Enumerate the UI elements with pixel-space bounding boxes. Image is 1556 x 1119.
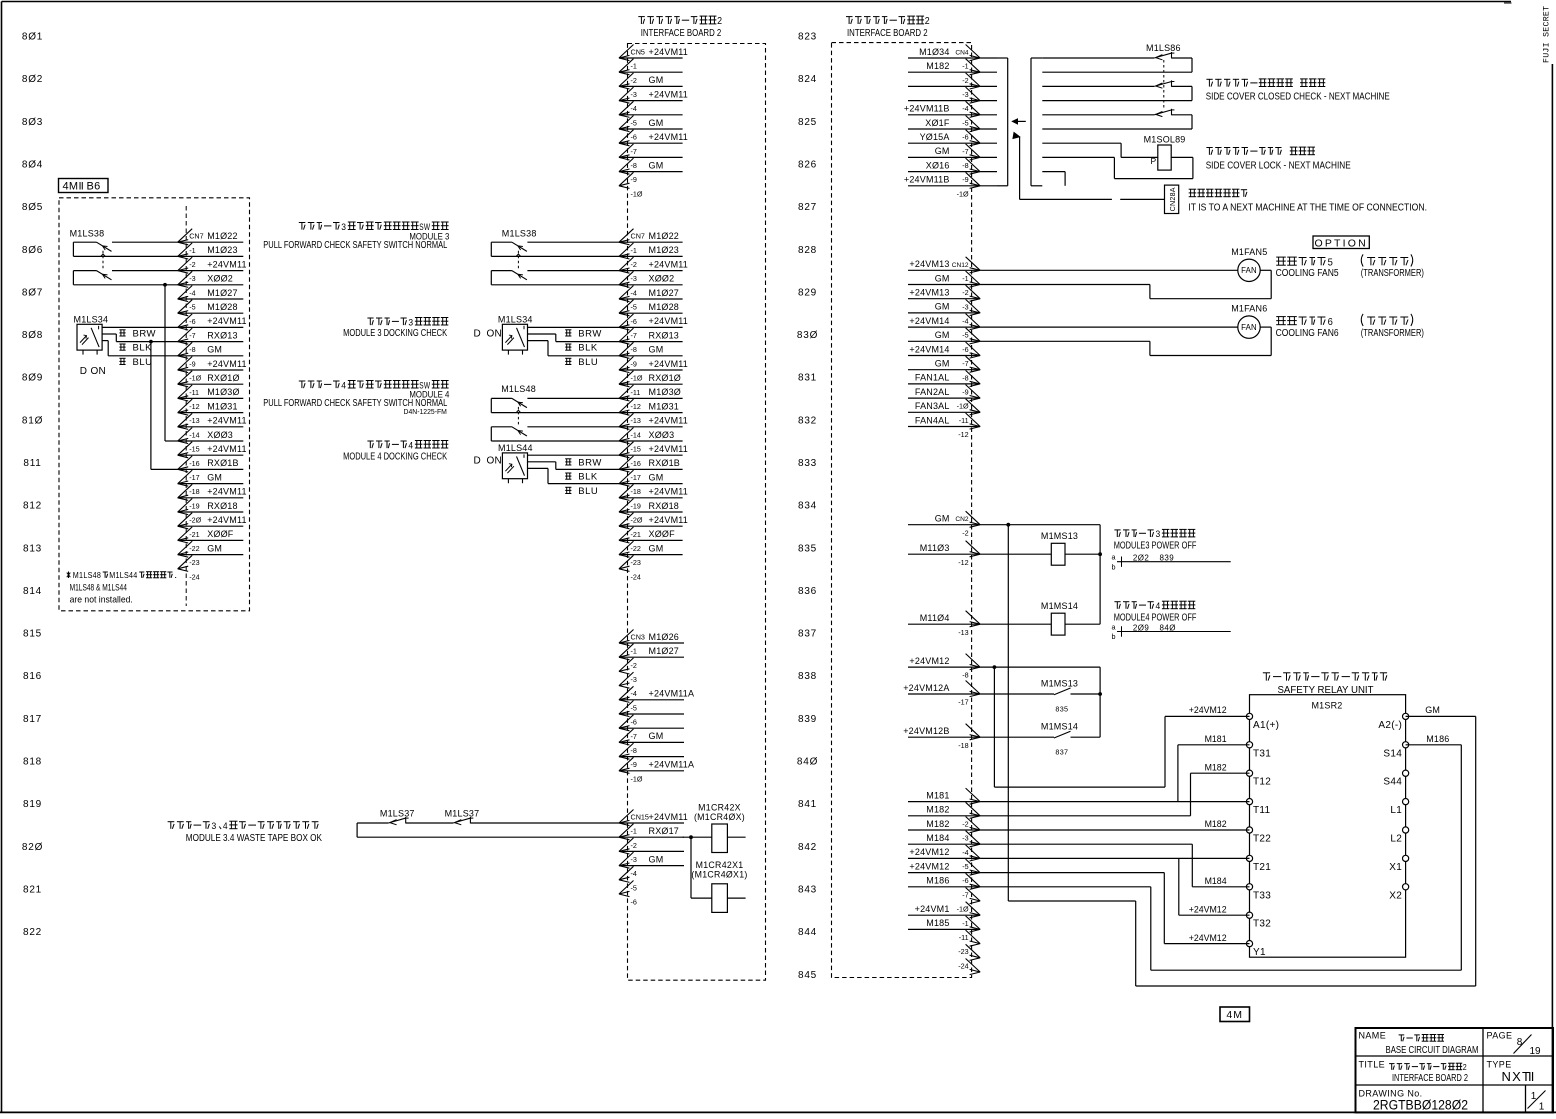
- svg-text:8Ø6: 8Ø6: [22, 245, 43, 256]
- svg-text:-4: -4: [631, 104, 637, 113]
- svg-text:-12: -12: [189, 402, 199, 411]
- svg-text:844: 844: [798, 927, 817, 938]
- svg-text:841: 841: [798, 799, 817, 810]
- svg-text:+24VM12: +24VM12: [1189, 904, 1227, 914]
- svg-text:T32: T32: [1253, 919, 1271, 930]
- svg-text:+24VM11: +24VM11: [649, 444, 689, 454]
- svg-text:XØØF: XØØF: [207, 529, 234, 539]
- svg-text:8Ø5: 8Ø5: [22, 202, 43, 213]
- svg-text:-2: -2: [962, 76, 968, 85]
- svg-text:XØ16: XØ16: [926, 160, 950, 170]
- svg-text:-8: -8: [962, 373, 968, 382]
- svg-text:IT IS TO A NEXT MACHINE AT THE: IT IS TO A NEXT MACHINE AT THE TIME OF C…: [1188, 203, 1427, 214]
- svg-text:-24: -24: [631, 572, 641, 581]
- svg-text:BRW: BRW: [578, 328, 602, 339]
- svg-text:GM: GM: [935, 146, 950, 156]
- svg-text:826: 826: [798, 159, 817, 170]
- svg-text:-14: -14: [189, 430, 199, 439]
- svg-text:-5: -5: [631, 703, 637, 712]
- svg-text:-4: -4: [631, 869, 637, 878]
- svg-text:M181: M181: [926, 790, 949, 800]
- svg-text:GM: GM: [649, 854, 664, 864]
- svg-text:M1Ø28: M1Ø28: [207, 302, 238, 312]
- svg-text:+24VM12: +24VM12: [1189, 705, 1227, 715]
- svg-text:-1: -1: [631, 62, 637, 71]
- svg-text:ON: ON: [487, 328, 502, 339]
- svg-text:2RGTBBØ128Ø2: 2RGTBBØ128Ø2: [1373, 1098, 1468, 1113]
- svg-text:-24: -24: [958, 961, 968, 970]
- svg-text:INTERFACE BOARD 2: INTERFACE BOARD 2: [847, 28, 928, 39]
- svg-text:MODULE3 POWER OFF: MODULE3 POWER OFF: [1114, 541, 1197, 552]
- svg-text:-1Ø: -1Ø: [957, 905, 969, 914]
- svg-text:+24VM11: +24VM11: [207, 359, 247, 369]
- svg-text:832: 832: [798, 415, 817, 426]
- svg-text:-8: -8: [631, 746, 637, 755]
- svg-text:COOLING FAN5: COOLING FAN5: [1276, 268, 1339, 279]
- svg-text:A2(-): A2(-): [1378, 720, 1402, 731]
- svg-text:D: D: [474, 328, 481, 339]
- svg-text:-14: -14: [631, 430, 641, 439]
- svg-text:M186: M186: [926, 876, 949, 886]
- svg-text:L1: L1: [1390, 805, 1402, 816]
- svg-text:MODULE 4 DOCKING CHECK: MODULE 4 DOCKING CHECK: [343, 452, 447, 463]
- svg-text:-11: -11: [189, 388, 199, 397]
- svg-text:-12: -12: [958, 558, 968, 567]
- svg-text:3: 3: [212, 821, 217, 832]
- svg-text:RXØ1B: RXØ1B: [207, 458, 239, 468]
- svg-text:S14: S14: [1383, 748, 1402, 759]
- svg-text:BRW: BRW: [578, 457, 602, 468]
- svg-text:+24VM14: +24VM14: [909, 344, 949, 354]
- svg-text:M1CR42X: M1CR42X: [698, 803, 741, 813]
- svg-text:+24VM11: +24VM11: [649, 89, 689, 99]
- svg-text:-6: -6: [631, 718, 637, 727]
- svg-text:-8: -8: [631, 345, 637, 354]
- svg-text:825: 825: [798, 117, 817, 128]
- svg-text:-5: -5: [962, 331, 968, 340]
- svg-text:+24VM11A: +24VM11A: [649, 689, 695, 699]
- svg-text:827: 827: [798, 202, 817, 213]
- svg-text:L2: L2: [1390, 834, 1402, 845]
- svg-text:-6: -6: [962, 876, 968, 885]
- svg-text:845: 845: [798, 970, 817, 981]
- svg-text:INTERFACE BOARD 2: INTERFACE BOARD 2: [641, 28, 722, 39]
- svg-text:817: 817: [23, 714, 42, 725]
- svg-text:-1: -1: [631, 647, 637, 656]
- svg-text:XØØ2: XØØ2: [649, 274, 675, 284]
- svg-text:.: .: [174, 571, 178, 580]
- svg-text:-8: -8: [189, 345, 195, 354]
- svg-text:-1: -1: [962, 919, 968, 928]
- svg-text:837: 837: [1055, 748, 1068, 757]
- svg-text:-1: -1: [631, 246, 637, 255]
- svg-text:XØ1F: XØ1F: [925, 118, 950, 128]
- svg-text:+24VM13: +24VM13: [909, 259, 949, 269]
- svg-text:837: 837: [798, 629, 817, 640]
- svg-text:D: D: [474, 455, 481, 466]
- svg-text:+24VM13: +24VM13: [909, 288, 949, 298]
- svg-text:RXØ1Ø: RXØ1Ø: [207, 373, 240, 383]
- svg-text:-5: -5: [631, 303, 637, 312]
- svg-text:FAN4AL: FAN4AL: [915, 415, 950, 425]
- svg-text:4: 4: [408, 440, 413, 451]
- svg-text:-13: -13: [958, 628, 968, 637]
- svg-text:BLU: BLU: [578, 486, 598, 497]
- svg-text:+24VM12B: +24VM12B: [903, 726, 949, 736]
- svg-text:+24VM11: +24VM11: [649, 812, 689, 822]
- svg-text:+24VM11: +24VM11: [649, 487, 689, 497]
- svg-text:834: 834: [798, 501, 817, 512]
- svg-text:-11: -11: [959, 933, 969, 942]
- svg-text:CN15: CN15: [631, 813, 649, 822]
- svg-text:-7: -7: [189, 331, 195, 340]
- svg-text:8Ø4: 8Ø4: [22, 159, 43, 170]
- svg-text:839: 839: [798, 714, 817, 725]
- svg-text:GM: GM: [935, 302, 950, 312]
- svg-text:FAN1AL: FAN1AL: [915, 373, 950, 383]
- svg-text:-2: -2: [962, 528, 968, 537]
- svg-text:-22: -22: [631, 544, 641, 553]
- svg-text:+24VM11A: +24VM11A: [649, 760, 695, 770]
- svg-text:-1: -1: [962, 62, 968, 71]
- svg-text:-18: -18: [189, 487, 199, 496]
- svg-text:(TRANSFORMER): (TRANSFORMER): [1361, 268, 1424, 279]
- svg-text:-7: -7: [962, 147, 968, 156]
- svg-text:819: 819: [23, 799, 42, 810]
- svg-text:T21: T21: [1253, 862, 1271, 873]
- svg-text:BLU: BLU: [133, 357, 153, 368]
- svg-text:-17: -17: [958, 698, 968, 707]
- svg-text:812: 812: [23, 501, 42, 512]
- svg-text:M1LS37: M1LS37: [445, 809, 480, 819]
- svg-text:-9: -9: [189, 359, 195, 368]
- svg-text:M1LS86: M1LS86: [1146, 43, 1181, 53]
- svg-text:a: a: [1111, 623, 1115, 632]
- svg-text:-9: -9: [962, 175, 968, 184]
- svg-text:835: 835: [1055, 705, 1068, 714]
- svg-text:-2: -2: [631, 76, 637, 85]
- svg-text:M1Ø27: M1Ø27: [207, 288, 238, 298]
- svg-text:+24VM11: +24VM11: [649, 259, 689, 269]
- svg-text:818: 818: [23, 757, 42, 768]
- svg-text:RXØ18: RXØ18: [649, 501, 680, 511]
- svg-text:3: 3: [341, 222, 346, 233]
- svg-text:8Ø1: 8Ø1: [22, 32, 43, 43]
- svg-text:M1LS34: M1LS34: [74, 315, 109, 325]
- svg-text:-2: -2: [189, 260, 195, 269]
- svg-text:A1(+): A1(+): [1253, 720, 1279, 731]
- svg-text:T33: T33: [1253, 890, 1271, 901]
- svg-text:M1LS38: M1LS38: [70, 229, 105, 239]
- svg-text:M1FAN6: M1FAN6: [1231, 304, 1267, 314]
- svg-text:-2: -2: [962, 819, 968, 828]
- svg-text:+24VM11B: +24VM11B: [904, 104, 950, 114]
- svg-text:835: 835: [798, 543, 817, 554]
- svg-text:T11: T11: [1253, 805, 1271, 816]
- svg-text:-23: -23: [958, 947, 968, 956]
- svg-text:2Ø2: 2Ø2: [1133, 554, 1149, 563]
- svg-text:M1LS44: M1LS44: [498, 443, 533, 453]
- svg-text:are not installed.: are not installed.: [70, 595, 133, 606]
- svg-text:2: 2: [717, 16, 722, 27]
- svg-text:-1Ø: -1Ø: [957, 402, 969, 411]
- svg-text:+24VM11: +24VM11: [649, 316, 689, 326]
- svg-text:FAN3AL: FAN3AL: [915, 401, 950, 411]
- svg-text:b: b: [1111, 632, 1115, 641]
- svg-text:ON: ON: [91, 366, 106, 377]
- svg-text:4M: 4M: [63, 181, 79, 193]
- svg-text:TITLE: TITLE: [1359, 1060, 1386, 1070]
- svg-text:FAN2AL: FAN2AL: [915, 387, 950, 397]
- svg-text:822: 822: [23, 927, 42, 938]
- svg-text:FAN: FAN: [1241, 323, 1257, 332]
- svg-text:829: 829: [798, 287, 817, 298]
- svg-text:-4: -4: [631, 288, 637, 297]
- svg-text:-19: -19: [189, 501, 199, 510]
- svg-text:823: 823: [798, 32, 817, 43]
- svg-text:X1: X1: [1389, 862, 1402, 873]
- svg-text:82Ø: 82Ø: [22, 842, 43, 853]
- svg-text:-1Ø: -1Ø: [189, 374, 201, 383]
- svg-text:M1SR2: M1SR2: [1311, 701, 1342, 711]
- svg-text:-9: -9: [631, 175, 637, 184]
- svg-text:(TRANSFORMER): (TRANSFORMER): [1361, 328, 1424, 339]
- svg-text:MODULE4 POWER OFF: MODULE4 POWER OFF: [1114, 612, 1197, 623]
- svg-text:GM: GM: [649, 160, 664, 170]
- svg-text:6: 6: [1328, 317, 1334, 328]
- svg-text:-3: -3: [962, 834, 968, 843]
- svg-text:-7: -7: [962, 890, 968, 899]
- svg-text:-5: -5: [631, 118, 637, 127]
- svg-text:83Ø: 83Ø: [797, 330, 818, 341]
- svg-text:4: 4: [223, 821, 228, 832]
- svg-text:2Ø9: 2Ø9: [1133, 623, 1149, 632]
- svg-text:-6: -6: [631, 133, 637, 142]
- svg-text:FUJI SECRET: FUJI SECRET: [1543, 6, 1552, 63]
- svg-text:XØØF: XØØF: [649, 529, 676, 539]
- svg-text:RXØ18: RXØ18: [207, 501, 238, 511]
- svg-text:-19: -19: [631, 501, 641, 510]
- svg-text:-3: -3: [631, 274, 637, 283]
- svg-text:P: P: [1151, 156, 1157, 166]
- svg-text:T12: T12: [1253, 777, 1271, 788]
- svg-text:-7: -7: [631, 732, 637, 741]
- svg-text:Y1: Y1: [1253, 947, 1266, 958]
- svg-text:+24VM12: +24VM12: [909, 847, 949, 857]
- svg-text:1: 1: [1539, 1102, 1545, 1113]
- svg-text:YØ15A: YØ15A: [920, 132, 950, 142]
- svg-text:M11Ø4: M11Ø4: [920, 613, 950, 623]
- svg-text:-16: -16: [631, 459, 641, 468]
- svg-text:M1Ø34: M1Ø34: [919, 47, 950, 57]
- svg-text:M1Ø27: M1Ø27: [649, 288, 680, 298]
- svg-text:842: 842: [798, 842, 817, 853]
- svg-text:+24VM11: +24VM11: [649, 132, 689, 142]
- svg-text:M184: M184: [1205, 876, 1227, 886]
- svg-text:M1Ø27: M1Ø27: [649, 646, 680, 656]
- svg-text:II: II: [1528, 1069, 1534, 1084]
- svg-text:-8: -8: [631, 161, 637, 170]
- svg-text:+24VM11B: +24VM11B: [904, 175, 950, 185]
- svg-text:D: D: [80, 366, 87, 377]
- svg-text:M182: M182: [1205, 762, 1227, 772]
- svg-text:-1: -1: [962, 274, 968, 283]
- svg-text:+24VM11: +24VM11: [649, 47, 689, 57]
- svg-text:+24VM11: +24VM11: [207, 416, 247, 426]
- svg-text:821: 821: [23, 885, 42, 896]
- svg-text:-23: -23: [189, 558, 199, 567]
- svg-text:-2: -2: [631, 260, 637, 269]
- svg-text:814: 814: [23, 586, 42, 597]
- svg-text:(M1CR4ØX): (M1CR4ØX): [694, 812, 745, 822]
- svg-text:M1Ø31: M1Ø31: [649, 401, 680, 411]
- svg-text:-11: -11: [631, 388, 641, 397]
- svg-text:GM: GM: [649, 543, 664, 553]
- svg-text:-6: -6: [962, 345, 968, 354]
- svg-text:-1: -1: [631, 827, 637, 836]
- svg-text:-5: -5: [962, 118, 968, 127]
- svg-text:SIDE COVER LOCK - NEXT MACHINE: SIDE COVER LOCK - NEXT MACHINE: [1206, 160, 1351, 171]
- svg-text:-13: -13: [631, 416, 641, 425]
- svg-text:84Ø: 84Ø: [1160, 623, 1176, 632]
- svg-text:M1Ø22: M1Ø22: [649, 231, 680, 241]
- svg-text:M1Ø26: M1Ø26: [649, 632, 680, 642]
- svg-text:-21: -21: [189, 530, 199, 539]
- svg-text:-13: -13: [189, 416, 199, 425]
- svg-text:M1Ø3Ø: M1Ø3Ø: [207, 387, 240, 397]
- svg-text:BRW: BRW: [133, 328, 157, 339]
- svg-text:GM: GM: [649, 345, 664, 355]
- svg-text:815: 815: [23, 629, 42, 640]
- svg-text:838: 838: [798, 671, 817, 682]
- svg-text:8Ø9: 8Ø9: [22, 373, 43, 384]
- svg-text:81Ø: 81Ø: [22, 415, 43, 426]
- svg-text:-7: -7: [631, 147, 637, 156]
- svg-text:-6: -6: [189, 317, 195, 326]
- svg-text:-9: -9: [962, 388, 968, 397]
- svg-text:M184: M184: [926, 833, 949, 843]
- svg-text:-4: -4: [962, 317, 968, 326]
- svg-text:CN12: CN12: [952, 262, 969, 269]
- svg-text:M1MS13: M1MS13: [1041, 679, 1078, 689]
- svg-text:-2: -2: [631, 661, 637, 670]
- svg-text:M1LS48: M1LS48: [501, 384, 536, 394]
- svg-text:-2Ø: -2Ø: [631, 516, 643, 525]
- svg-text:M1LS44: M1LS44: [109, 571, 138, 580]
- svg-text:PAGE: PAGE: [1487, 1031, 1513, 1041]
- svg-text:-6: -6: [631, 898, 637, 907]
- svg-text:-1Ø: -1Ø: [631, 189, 643, 198]
- svg-text:-21: -21: [631, 530, 641, 539]
- svg-text:843: 843: [798, 885, 817, 896]
- svg-text:BLK: BLK: [133, 343, 153, 354]
- svg-text:(M1CR4ØX1): (M1CR4ØX1): [691, 870, 747, 880]
- svg-text:-12: -12: [631, 402, 641, 411]
- svg-text:XØØ2: XØØ2: [207, 274, 233, 284]
- svg-text:M182: M182: [926, 61, 949, 71]
- svg-text:-16: -16: [189, 459, 199, 468]
- svg-text:828: 828: [798, 245, 817, 256]
- svg-text:X2: X2: [1389, 890, 1402, 901]
- svg-text:RXØ17: RXØ17: [649, 826, 680, 836]
- svg-text:GM: GM: [935, 330, 950, 340]
- svg-text:COOLING FAN6: COOLING FAN6: [1276, 328, 1339, 339]
- svg-text:GM: GM: [207, 543, 222, 553]
- svg-text:M1FAN5: M1FAN5: [1231, 247, 1267, 257]
- svg-text:M1Ø23: M1Ø23: [649, 245, 680, 255]
- svg-text:M185: M185: [926, 918, 949, 928]
- svg-text:811: 811: [23, 458, 41, 469]
- svg-text:M1LS48: M1LS48: [73, 571, 102, 580]
- svg-text:-1Ø: -1Ø: [631, 374, 643, 383]
- svg-text:M1LS37: M1LS37: [380, 809, 415, 819]
- svg-text:NAME: NAME: [1359, 1031, 1387, 1041]
- svg-text:-9: -9: [631, 760, 637, 769]
- svg-text:RXØ13: RXØ13: [649, 330, 680, 340]
- svg-text:M1Ø23: M1Ø23: [207, 245, 238, 255]
- svg-text:M1LS48 & M1LS44: M1LS48 & M1LS44: [70, 583, 127, 594]
- svg-text:4: 4: [341, 380, 346, 391]
- svg-text:MODULE 3 DOCKING CHECK: MODULE 3 DOCKING CHECK: [343, 328, 447, 339]
- svg-text:8Ø3: 8Ø3: [22, 117, 43, 128]
- svg-text:-3: -3: [962, 90, 968, 99]
- svg-text:+24VM12: +24VM12: [909, 861, 949, 871]
- svg-text:+24VM11: +24VM11: [207, 487, 247, 497]
- svg-text:T22: T22: [1253, 834, 1271, 845]
- svg-text:-2: -2: [631, 841, 637, 850]
- svg-text:D4N-1225-FM: D4N-1225-FM: [404, 407, 447, 416]
- svg-text:NXT: NXT: [1502, 1069, 1532, 1084]
- svg-text:-8: -8: [962, 671, 968, 680]
- svg-text:BLK: BLK: [578, 343, 598, 354]
- svg-text:+24VM11: +24VM11: [207, 444, 247, 454]
- svg-text:GM: GM: [935, 514, 950, 524]
- svg-text:M1SOL89: M1SOL89: [1144, 135, 1186, 145]
- svg-text:II: II: [79, 181, 84, 193]
- svg-text:836: 836: [798, 586, 817, 597]
- svg-text:M1Ø31: M1Ø31: [207, 401, 238, 411]
- svg-text:19: 19: [1529, 1046, 1541, 1057]
- svg-text:CN4: CN4: [955, 50, 969, 57]
- svg-text:-11: -11: [959, 416, 969, 425]
- svg-text:a: a: [1111, 553, 1115, 562]
- svg-text:-3: -3: [631, 675, 637, 684]
- svg-text:-15: -15: [189, 445, 199, 454]
- svg-text:-24: -24: [189, 572, 199, 581]
- svg-text:M182: M182: [1205, 819, 1227, 829]
- svg-text:-8: -8: [962, 161, 968, 170]
- svg-text:GM: GM: [649, 118, 664, 128]
- svg-text:b: b: [1111, 562, 1115, 571]
- svg-text:-6: -6: [962, 133, 968, 142]
- svg-text:RXØ13: RXØ13: [207, 330, 238, 340]
- svg-text:-23: -23: [631, 558, 641, 567]
- svg-text:+24VM11: +24VM11: [649, 359, 689, 369]
- svg-text:-18: -18: [631, 487, 641, 496]
- svg-text:GM: GM: [935, 273, 950, 283]
- svg-text:3: 3: [1156, 529, 1161, 540]
- svg-text:-5: -5: [631, 883, 637, 892]
- svg-text:B6: B6: [87, 181, 101, 193]
- svg-text:-3: -3: [631, 90, 637, 99]
- svg-text:GM: GM: [649, 75, 664, 85]
- svg-text:8Ø7: 8Ø7: [22, 287, 43, 298]
- svg-text:OPTION: OPTION: [1314, 237, 1367, 249]
- svg-text:S44: S44: [1383, 777, 1402, 788]
- svg-text:GM: GM: [649, 731, 664, 741]
- svg-text:-3: -3: [189, 274, 195, 283]
- svg-text:4M: 4M: [1226, 1009, 1243, 1021]
